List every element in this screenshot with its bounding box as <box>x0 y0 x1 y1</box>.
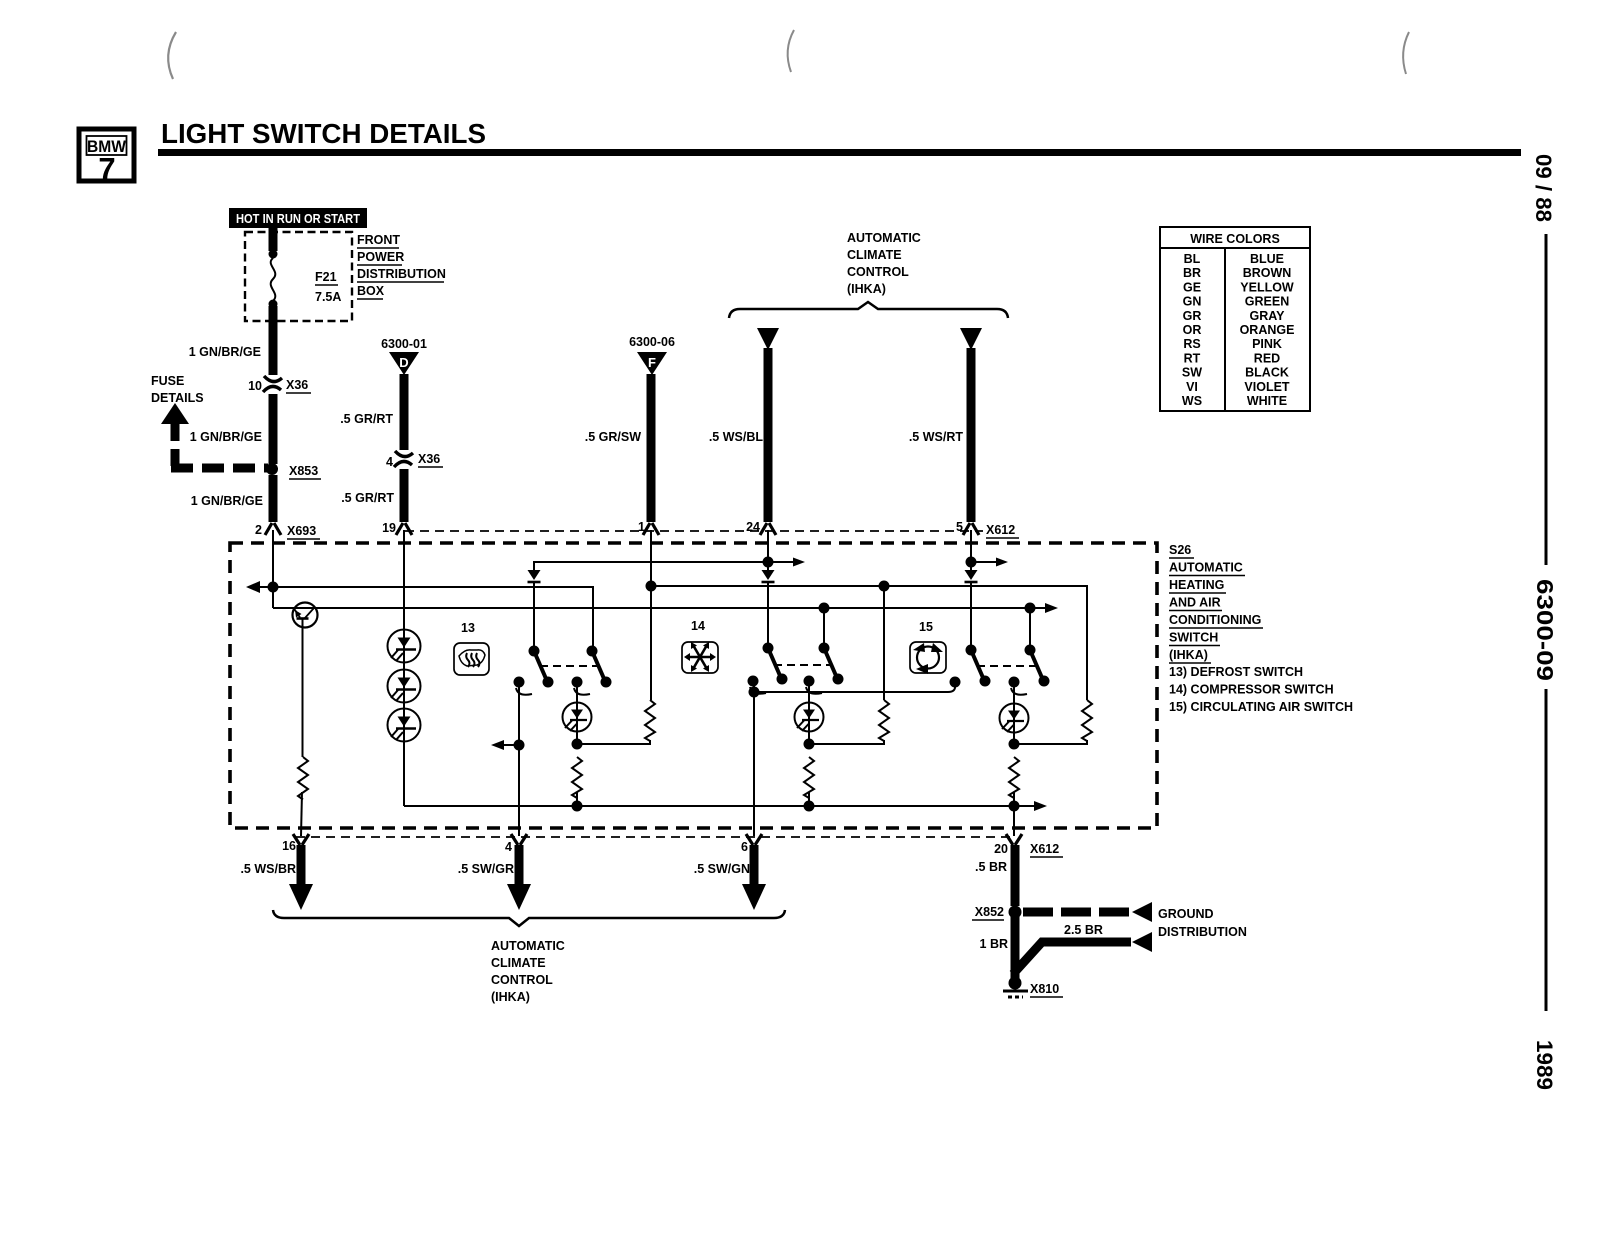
wire R6 to pin 20 <box>1013 792 1015 836</box>
stub arrow pin 24 <box>768 558 805 567</box>
pin 4 fork <box>505 834 527 854</box>
svg-text:X36: X36 <box>286 378 308 392</box>
wire LED15 to resistor R5 <box>1014 740 1087 744</box>
svg-text:WS: WS <box>1182 394 1202 408</box>
wire .5 SW/GN to IHKA <box>694 845 766 910</box>
svg-text:CONTROL: CONTROL <box>491 973 553 987</box>
junction R3/busA <box>879 581 890 592</box>
svg-text:7.5A: 7.5A <box>315 290 341 304</box>
svg-text:HOT IN RUN OR START: HOT IN RUN OR START <box>236 212 360 226</box>
svg-text:AUTOMATIC: AUTOMATIC <box>847 231 921 245</box>
pin 1 fork <box>638 520 659 535</box>
svg-text:CLIMATE: CLIMATE <box>847 248 902 262</box>
brace from IHKA <box>729 302 1008 318</box>
svg-text:.5 WS/RT: .5 WS/RT <box>909 430 964 444</box>
svg-text:BL: BL <box>1184 252 1201 266</box>
svg-text:CONDITIONING: CONDITIONING <box>1169 613 1261 627</box>
svg-text:ORANGE: ORANGE <box>1240 323 1295 337</box>
svg-text:GR: GR <box>1183 309 1202 323</box>
pin 20 fork <box>994 834 1063 857</box>
svg-text:1: 1 <box>638 520 645 534</box>
svg-text:10: 10 <box>248 379 262 393</box>
resistor R16 <box>298 757 308 800</box>
svg-text:6300-09: 6300-09 <box>1532 579 1558 681</box>
svg-text:.5 SW/GR: .5 SW/GR <box>458 862 514 876</box>
svg-text:AUTOMATIC: AUTOMATIC <box>1169 561 1243 575</box>
switch 13 right arm <box>587 646 612 688</box>
wire .5 GR/RT upper <box>400 374 409 450</box>
LED L1 <box>388 630 421 663</box>
switch 15 right arm <box>1025 645 1050 687</box>
svg-text:(IHKA): (IHKA) <box>1169 648 1208 662</box>
svg-text:13: 13 <box>461 621 475 635</box>
svg-text:6300-01: 6300-01 <box>381 337 427 351</box>
switch 15 right contact <box>1009 677 1028 695</box>
svg-text:FRONT: FRONT <box>357 233 400 247</box>
LED L2 <box>388 662 421 703</box>
switch 13 left contact <box>514 677 533 695</box>
svg-text:X612: X612 <box>986 523 1015 537</box>
margin separator line <box>1545 689 1548 1011</box>
junction LED13 bottom <box>572 739 583 750</box>
svg-text:6300-06: 6300-06 <box>629 335 675 349</box>
pin 19 fork <box>382 521 412 535</box>
switch 13 coupling link <box>540 665 598 667</box>
svg-text:GREEN: GREEN <box>1245 295 1289 309</box>
wire .5 GR/SW <box>647 374 656 522</box>
LED sw13 <box>563 687 592 740</box>
junction bottom bus sw13 <box>572 801 583 812</box>
junction bottom bus sw15 <box>1009 801 1020 812</box>
svg-text:WIRE COLORS: WIRE COLORS <box>1190 232 1280 246</box>
title underline bar <box>158 149 1521 156</box>
svg-text:VIOLET: VIOLET <box>1244 380 1290 394</box>
wire .5 WS/RT from IHKA <box>909 328 1019 538</box>
wire sw14 left contact to pin 6 <box>753 686 755 836</box>
resistor R2 below LED13 <box>572 757 582 798</box>
circulating air icon 15 <box>910 620 946 674</box>
svg-text:14: 14 <box>691 619 705 633</box>
connector 6300-06 F <box>629 335 675 375</box>
bottom bus with arrow <box>404 801 1047 811</box>
svg-text:DISTRIBUTION: DISTRIBUTION <box>1158 925 1247 939</box>
switch 13 left arm <box>529 646 554 688</box>
wire .5 GR/RT lower <box>400 469 409 522</box>
label GROUND DISTRIBUTION <box>1158 907 1247 939</box>
svg-text:GN: GN <box>1183 295 1202 309</box>
junction sw14/busB <box>819 603 830 614</box>
wire 2.5 BR to ground distribution <box>1013 923 1152 974</box>
wire LED14 to resistor R3 <box>809 740 884 744</box>
compressor icon 14 <box>682 619 718 673</box>
wire pin 24 down <box>767 530 769 571</box>
junction pin2/busA <box>268 582 279 593</box>
svg-text:HEATING: HEATING <box>1169 578 1224 592</box>
wire R4 to bottom bus <box>808 792 810 806</box>
junction pin 5 <box>966 557 977 568</box>
connector X36 pin 10 <box>248 376 311 393</box>
svg-text:X693: X693 <box>287 524 316 538</box>
svg-text:1 GN/BR/GE: 1 GN/BR/GE <box>190 430 262 444</box>
wire pin 1 down <box>650 530 652 700</box>
wire diode 14 to left arm <box>767 582 769 645</box>
wire sw14 right arm to bus B <box>823 607 825 645</box>
resistor R5 <box>1082 700 1092 741</box>
svg-text:(IHKA): (IHKA) <box>491 990 530 1004</box>
wire LED13 to resistor R1 <box>577 740 650 744</box>
resistor R3 <box>879 700 889 741</box>
pin 6 fork <box>741 834 762 854</box>
svg-text:RED: RED <box>1254 351 1280 365</box>
svg-text:09 / 88: 09 / 88 <box>1531 154 1556 222</box>
bus A right segment <box>651 586 1087 700</box>
svg-text:1 GN/BR/GE: 1 GN/BR/GE <box>189 345 261 359</box>
LED sw15 <box>1000 687 1029 740</box>
svg-text:20: 20 <box>994 842 1008 856</box>
junction pin1/busA right <box>646 581 657 592</box>
svg-text:AUTOMATIC: AUTOMATIC <box>491 939 565 953</box>
svg-text:FUSE: FUSE <box>151 374 184 388</box>
svg-text:CONTROL: CONTROL <box>847 265 909 279</box>
svg-text:X852: X852 <box>975 905 1004 919</box>
resistor R1 on pin1 branch <box>645 700 655 741</box>
svg-text:X810: X810 <box>1030 982 1059 996</box>
switch 15 left arm <box>966 645 991 687</box>
svg-text:S26: S26 <box>1169 543 1191 557</box>
defrost icon 13 <box>454 621 489 675</box>
wire resistor to pin 16 <box>301 792 302 836</box>
wire R3 to bus A <box>883 586 885 700</box>
label AUTOMATIC CLIMATE CONTROL (IHKA) bottom <box>491 939 565 1004</box>
stub arrow pin 5 <box>971 558 1008 567</box>
resistor R4 below LED14 <box>804 757 814 798</box>
svg-text:BLACK: BLACK <box>1245 366 1289 380</box>
svg-text:D: D <box>399 355 408 370</box>
switch 14 right contact <box>804 676 823 694</box>
wire .5 WS/BL from IHKA <box>709 328 779 535</box>
svg-text:.5 GR/RT: .5 GR/RT <box>340 412 393 426</box>
margin separator line <box>1545 234 1548 565</box>
svg-text:LIGHT SWITCH DETAILS: LIGHT SWITCH DETAILS <box>161 118 486 149</box>
svg-text:15: 15 <box>919 620 933 634</box>
svg-text:AND AIR: AND AIR <box>1169 596 1221 610</box>
fuse details reference arrow <box>151 374 268 468</box>
wire pin 5 down <box>970 530 972 571</box>
junction contact line pin6 <box>749 687 760 698</box>
brace to IHKA bottom <box>273 910 785 926</box>
svg-text:1 GN/BR/GE: 1 GN/BR/GE <box>191 494 263 508</box>
svg-text:2: 2 <box>255 523 262 537</box>
pin 16 fork <box>282 834 309 853</box>
svg-text:X36: X36 <box>418 452 440 466</box>
svg-text:.5 GR/SW: .5 GR/SW <box>585 430 641 444</box>
svg-text:PINK: PINK <box>1252 337 1282 351</box>
wire transistor to resistor <box>302 626 304 757</box>
diode D15 <box>965 570 978 582</box>
junction X853 <box>266 463 321 479</box>
wire pin24 feed to diode 13 <box>534 561 768 571</box>
switch 15 left contact <box>950 677 961 688</box>
LED sw14 <box>795 686 824 740</box>
connector 6300-01 D <box>381 337 427 375</box>
svg-text:VI: VI <box>1186 380 1198 394</box>
transistor Q1 <box>293 603 318 628</box>
svg-text:OR: OR <box>1183 323 1202 337</box>
switch 14 coupling link <box>774 664 832 666</box>
svg-text:F: F <box>648 355 656 370</box>
svg-text:RT: RT <box>1184 351 1201 365</box>
bus B <box>273 587 1058 613</box>
ground distribution dashed wire <box>1023 902 1152 922</box>
svg-text:.5 GR/RT: .5 GR/RT <box>341 491 394 505</box>
svg-text:1 BR: 1 BR <box>980 937 1008 951</box>
svg-text:BROWN: BROWN <box>1243 266 1292 280</box>
junction LED14 bottom <box>804 739 815 750</box>
svg-text:DETAILS: DETAILS <box>151 391 204 405</box>
svg-text:1989: 1989 <box>1532 1040 1557 1090</box>
connector X612 dashed line top <box>405 530 983 532</box>
bus A left with arrow <box>246 581 594 593</box>
svg-text:2.5 BR: 2.5 BR <box>1064 923 1103 937</box>
svg-text:WHITE: WHITE <box>1247 394 1287 408</box>
wire busA down to switch 13 right arm <box>592 587 594 648</box>
front power distribution box (dashed) <box>245 232 352 321</box>
junction pin 24 <box>763 557 774 568</box>
svg-text:BOX: BOX <box>357 284 385 298</box>
svg-text:.5 WS/BL: .5 WS/BL <box>709 430 764 444</box>
svg-text:BLUE: BLUE <box>1250 252 1284 266</box>
wire .5 BR pin20 to X852 <box>975 845 1015 906</box>
wire LED chain to bottom bus <box>403 741 405 806</box>
wire diode 15 to left arm <box>970 582 972 647</box>
wire diode 13 to left arm <box>533 582 535 648</box>
svg-text:SW: SW <box>1182 366 1202 380</box>
ground X810 <box>1003 970 1063 997</box>
svg-text:.5 SW/GN: .5 SW/GN <box>694 862 750 876</box>
wire .5 SW/GR to IHKA <box>458 845 531 910</box>
svg-text:13) DEFROST SWITCH: 13) DEFROST SWITCH <box>1169 665 1303 679</box>
wire sw13 left contact to pin 4 <box>491 687 525 836</box>
svg-text:4: 4 <box>386 455 393 469</box>
wire pin 2 into box <box>272 530 274 587</box>
switch 13 right contact <box>572 677 591 695</box>
wire hot feed into fuse <box>269 228 278 251</box>
switch 14 left arm <box>763 643 788 685</box>
BMW 7 logo <box>79 129 134 186</box>
wire colors table <box>1160 227 1310 411</box>
wire .5 WS/BR to IHKA <box>240 845 313 910</box>
svg-text:F21: F21 <box>315 270 337 284</box>
label S26 AUTOMATIC HEATING AND AIR CONDITIONING SWITCH (IHKA) <box>1169 543 1353 714</box>
svg-text:GRAY: GRAY <box>1250 309 1286 323</box>
svg-text:SWITCH: SWITCH <box>1169 631 1218 645</box>
wire contact link sw14 to sw15 <box>754 685 955 692</box>
junction LED15 bottom <box>1009 739 1020 750</box>
connector X612 dashed line bottom <box>296 836 1012 838</box>
wire 1 GN/BR/GE X853 to X693 <box>269 475 278 522</box>
svg-text:DISTRIBUTION: DISTRIBUTION <box>357 267 446 281</box>
diode D13 <box>528 570 541 582</box>
wire fuse to X36 <box>269 306 278 375</box>
switch 14 left contact <box>748 676 767 694</box>
S26 switch assembly dashed box <box>230 543 1157 828</box>
svg-text:GE: GE <box>1183 280 1201 294</box>
label FRONT POWER DISTRIBUTION BOX <box>357 233 446 299</box>
LED L3 <box>388 702 421 742</box>
HOT IN RUN OR START label <box>229 208 367 228</box>
svg-text:.5 WS/BR: .5 WS/BR <box>240 862 296 876</box>
connector pin 2 X693 fork <box>255 523 320 539</box>
svg-text:X612: X612 <box>1030 842 1059 856</box>
wire 1 BR <box>980 912 1015 972</box>
svg-text:(IHKA): (IHKA) <box>847 282 886 296</box>
svg-text:5: 5 <box>956 520 963 534</box>
svg-text:14) COMPRESSOR SWITCH: 14) COMPRESSOR SWITCH <box>1169 683 1334 697</box>
svg-text:CLIMATE: CLIMATE <box>491 956 546 970</box>
wire R2 to bottom bus <box>576 792 578 806</box>
svg-text:X853: X853 <box>289 464 318 478</box>
svg-text:6: 6 <box>741 840 748 854</box>
wire pin 19 to LED chain <box>403 530 405 631</box>
svg-text:7: 7 <box>98 151 115 186</box>
svg-text:RS: RS <box>1183 337 1200 351</box>
svg-text:16: 16 <box>282 839 296 853</box>
junction X852 <box>972 905 1022 920</box>
svg-text:24: 24 <box>746 520 760 534</box>
diode D14 <box>762 570 775 582</box>
svg-text:BR: BR <box>1183 266 1201 280</box>
svg-text:.5 BR: .5 BR <box>975 860 1007 874</box>
connector X36 pin 4 <box>386 451 443 469</box>
svg-text:19: 19 <box>382 521 396 535</box>
fuse F21 7.5A <box>269 250 342 309</box>
wire 1 GN/BR/GE X36 to X853 <box>269 394 278 464</box>
switch 14 right arm <box>819 643 844 685</box>
switch 15 coupling link <box>977 665 1038 667</box>
svg-text:POWER: POWER <box>357 250 404 264</box>
junction bottom bus sw14 <box>804 801 815 812</box>
svg-text:GROUND: GROUND <box>1158 907 1214 921</box>
svg-text:15) CIRCULATING AIR SWITCH: 15) CIRCULATING AIR SWITCH <box>1169 700 1353 714</box>
wire sw15 right arm to bus B <box>1029 607 1031 647</box>
resistor R6 below LED15 <box>1009 757 1019 798</box>
svg-text:YELLOW: YELLOW <box>1240 280 1294 294</box>
label AUTOMATIC CLIMATE CONTROL (IHKA) top <box>847 231 921 296</box>
junction sw15/busB <box>1025 603 1036 614</box>
svg-text:4: 4 <box>505 840 512 854</box>
